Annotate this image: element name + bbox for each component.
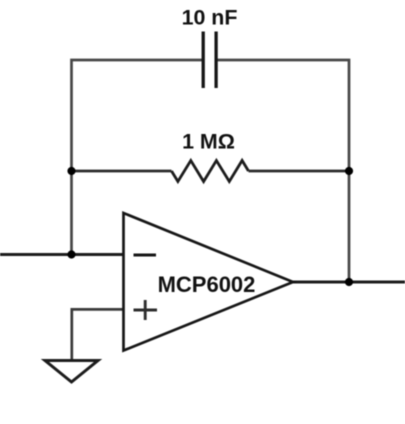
capacitor C1 plates bbox=[203, 32, 216, 89]
wire ground stub bbox=[70, 308, 73, 361]
wire non-inverting input bbox=[72, 308, 124, 311]
wire input bbox=[0, 253, 124, 256]
ground bbox=[45, 361, 98, 383]
op-amp minus input label bbox=[134, 254, 157, 257]
wire resistor left stub bbox=[72, 170, 172, 173]
wire top-left feedback segment bbox=[72, 60, 204, 255]
wire resistor right stub bbox=[249, 170, 350, 173]
wire output bbox=[293, 281, 405, 284]
svg-text:10 nF: 10 nF bbox=[182, 5, 238, 29]
resistor R1 zigzag bbox=[172, 161, 249, 182]
op-amp U1 bbox=[124, 213, 294, 351]
node output junction bbox=[345, 278, 353, 286]
node inverting input junction bbox=[67, 250, 75, 258]
node feedback-resistor right junction bbox=[345, 167, 353, 175]
svg-text:MCP6002: MCP6002 bbox=[158, 272, 256, 297]
node feedback-resistor left junction bbox=[67, 167, 75, 175]
wire top-right feedback segment bbox=[216, 60, 349, 282]
svg-text:1 MΩ: 1 MΩ bbox=[182, 130, 235, 154]
op-amp plus input label bbox=[134, 300, 158, 320]
